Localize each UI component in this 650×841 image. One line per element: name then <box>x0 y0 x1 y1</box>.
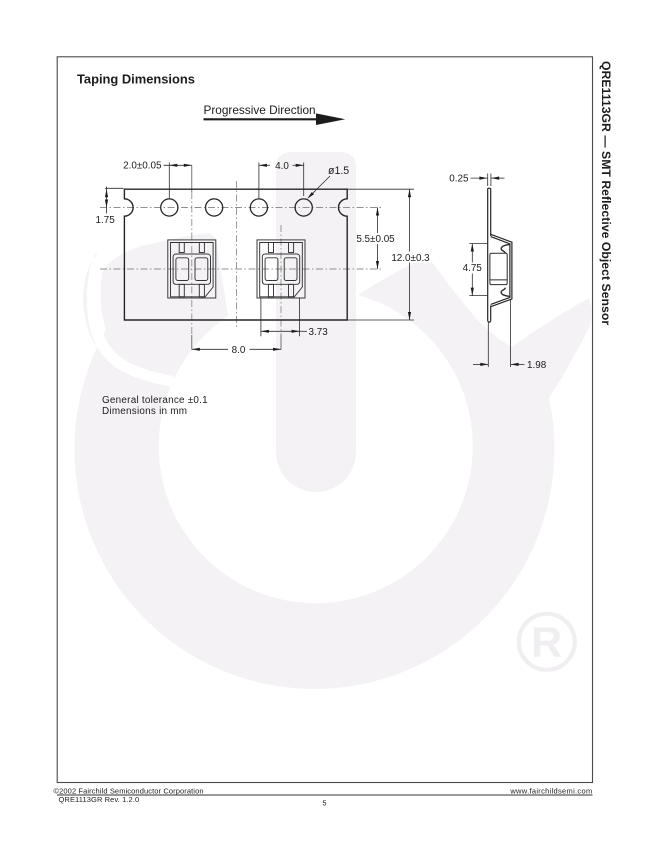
svg-text:3.73: 3.73 <box>309 327 329 338</box>
svg-text:1.98: 1.98 <box>527 360 547 371</box>
tape vertical centerline <box>236 181 238 329</box>
svg-text:1.75: 1.75 <box>96 215 116 226</box>
svg-text:5.5±0.05: 5.5±0.05 <box>356 234 395 245</box>
side view bottom retainer curl <box>501 288 510 297</box>
side view tape wall <box>488 188 491 322</box>
dimension 1.75 <box>96 187 124 227</box>
svg-text:R: R <box>531 619 562 667</box>
dimension 0.25 <box>449 174 504 187</box>
watermark logo left tail <box>83 252 97 345</box>
svg-text:Progressive Direction: Progressive Direction <box>204 103 316 117</box>
page frame border <box>57 57 592 783</box>
dimension ø1.5 leader <box>307 165 349 199</box>
component row centerline <box>100 268 381 270</box>
dimension 8.0 <box>192 345 281 356</box>
watermark registered trademark symbol <box>519 614 575 670</box>
sprocket hole 1 <box>161 199 178 216</box>
sprocket hole 3 <box>250 199 267 216</box>
component 1 lead pads <box>179 243 204 297</box>
svg-text:4.0: 4.0 <box>275 161 289 172</box>
component 1 centerline <box>191 165 193 349</box>
svg-text:8.0: 8.0 <box>232 345 246 356</box>
component 1 emitter window <box>176 258 189 281</box>
dimension 5.5±0.05 <box>356 208 397 270</box>
component 2 body with chamfer <box>260 243 303 297</box>
svg-text:Taping Dimensions: Taping Dimensions <box>77 72 195 87</box>
component 1 pocket outline <box>168 240 216 298</box>
component 2 emitter window <box>265 258 278 281</box>
watermark Fairchild power-symbol logo ring <box>74 233 591 689</box>
sprocket hole 4 <box>295 199 312 216</box>
watermark logo bar <box>276 152 356 492</box>
footer rule <box>57 794 593 796</box>
svg-text:QRE1113GR Rev. 1.2.0: QRE1113GR Rev. 1.2.0 <box>59 795 140 804</box>
tape outline with edge notches <box>124 189 347 320</box>
sprocket hole 2 <box>206 199 223 216</box>
svg-text:2.0±0.05: 2.0±0.05 <box>123 161 162 172</box>
svg-text:QRE1113GR — SMT Reflective Obj: QRE1113GR — SMT Reflective Object Sensor <box>599 61 613 325</box>
svg-text:General tolerance ±0.1: General tolerance ±0.1 <box>102 395 208 406</box>
dimension 12.0±0.3 <box>347 189 430 320</box>
dimension 2.0±0.05 <box>123 161 192 199</box>
component 2 centerline <box>280 225 282 350</box>
watermark logo spiral channel <box>92 262 170 381</box>
component 1 detector window <box>195 258 208 281</box>
dimension 4.75 <box>461 244 488 296</box>
svg-text:5: 5 <box>322 798 326 807</box>
dimension 1.98 <box>473 300 547 371</box>
progressive direction arrow <box>204 113 346 125</box>
side view pocket bulge <box>491 234 512 306</box>
component 2 sensor face frame <box>262 254 299 284</box>
svg-text:12.0±0.3: 12.0±0.3 <box>391 253 430 264</box>
side view component in pocket <box>490 253 507 284</box>
dimension 3.73 <box>261 298 328 339</box>
component 2 pocket outline <box>257 240 305 298</box>
component 1 body with chamfer <box>171 243 214 297</box>
component 2 lead pads <box>268 243 293 297</box>
svg-text:www.fairchildsemi.com: www.fairchildsemi.com <box>509 786 592 795</box>
side view top retainer curl <box>501 245 510 254</box>
svg-text:ø1.5: ø1.5 <box>328 165 349 177</box>
component 2 detector window <box>284 258 297 281</box>
component 1 sensor face frame <box>173 254 210 284</box>
svg-text:0.25: 0.25 <box>449 174 469 185</box>
dimension 4.0 <box>259 161 304 199</box>
hole row centerline <box>100 207 381 209</box>
svg-text:Dimensions in mm: Dimensions in mm <box>102 406 187 417</box>
svg-text:4.75: 4.75 <box>463 263 483 274</box>
